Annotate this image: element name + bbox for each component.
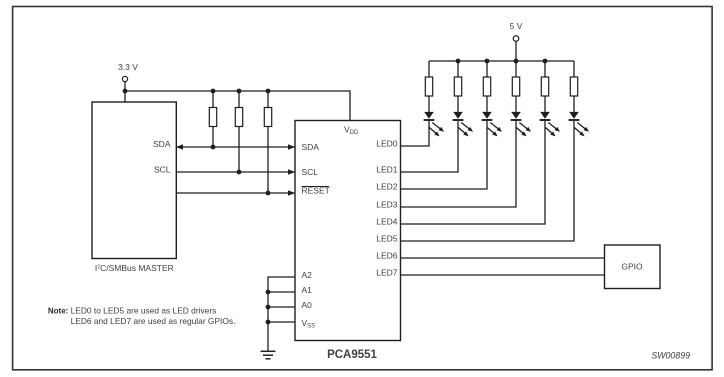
svg-text:LED6: LED6	[376, 251, 398, 261]
svg-text:5 V: 5 V	[510, 21, 523, 31]
svg-text:SCL: SCL	[154, 164, 171, 174]
node rail at R1	[211, 89, 216, 94]
supply 3.3 V	[118, 62, 138, 102]
LED4 diode	[540, 112, 560, 136]
LED1 diode	[453, 112, 473, 136]
wire LED2	[401, 121, 488, 189]
LED2 diode	[482, 112, 502, 136]
svg-text:LED2: LED2	[376, 182, 398, 192]
wire SDA	[176, 144, 295, 149]
svg-text:LED4: LED4	[376, 217, 398, 227]
svg-text:I2C/SMBus MASTER: I2C/SMBus MASTER	[95, 263, 174, 273]
wire A1	[268, 291, 295, 293]
wire SCL	[176, 169, 295, 174]
resistor pull-up SDA	[209, 91, 216, 147]
node rail at R2	[237, 89, 242, 94]
svg-text:SCL: SCL	[302, 167, 319, 177]
node rail chain2	[456, 59, 461, 64]
wire LED5	[401, 121, 575, 241]
svg-text:RESET: RESET	[302, 186, 330, 196]
resistor LED4 chain	[541, 61, 548, 112]
svg-text:A1: A1	[302, 285, 313, 295]
node A0	[266, 305, 271, 310]
note text	[48, 305, 236, 326]
svg-text:LED5: LED5	[376, 234, 398, 244]
node VSS	[266, 320, 271, 325]
wire VSS	[268, 321, 295, 323]
wire LED6 to GPIO	[401, 257, 605, 259]
resistor LED3 chain	[512, 61, 519, 112]
wire LED3	[401, 121, 517, 207]
node rail chain3	[485, 59, 490, 64]
wire 5V rail	[429, 60, 574, 62]
node rail at master	[123, 89, 128, 94]
svg-text:PCA9551: PCA9551	[327, 349, 377, 361]
resistor LED2 chain	[483, 61, 490, 112]
wire RESET	[176, 190, 295, 195]
IC PCA9551	[295, 121, 401, 361]
resistor pull-up SCL	[235, 91, 242, 172]
pin RESET	[302, 186, 330, 196]
block GPIO	[605, 245, 661, 289]
svg-text:LED3: LED3	[376, 200, 398, 210]
svg-text:3.3 V: 3.3 V	[118, 62, 138, 72]
wire LED4	[401, 121, 546, 224]
block I2C/SMBus MASTER	[92, 102, 176, 273]
LED0 diode	[424, 112, 444, 136]
node rail at R3	[266, 89, 271, 94]
svg-text:LED1: LED1	[376, 165, 398, 175]
resistor pull-up RESET	[264, 91, 271, 193]
svg-text:A2: A2	[302, 270, 313, 280]
node rail chain5	[543, 59, 548, 64]
wire LED1	[401, 121, 459, 172]
ground	[261, 351, 276, 359]
node A1	[266, 290, 271, 295]
svg-text:LED7: LED7	[376, 268, 398, 278]
svg-text:A0: A0	[302, 300, 313, 310]
svg-text:SW00899: SW00899	[651, 350, 690, 360]
svg-text:LED0: LED0	[376, 139, 398, 149]
wire 3.3V rail	[125, 91, 350, 121]
LED5 diode	[569, 112, 589, 136]
svg-text:SDA: SDA	[153, 139, 171, 149]
svg-text:LED6 and LED7 are used as regu: LED6 and LED7 are used as regular GPIOs.	[71, 316, 236, 326]
svg-text:Note:LED0 to LED5 are used as: Note:LED0 to LED5 are used as LED driver…	[48, 305, 216, 315]
resistor LED0 chain	[425, 61, 432, 112]
resistor LED5 chain	[570, 61, 577, 112]
wire address bus A2	[268, 277, 295, 351]
wire LED0	[401, 121, 430, 146]
svg-text:GPIO: GPIO	[621, 262, 643, 272]
supply 5 V	[510, 21, 523, 61]
node rail chain4	[514, 59, 519, 64]
LED3 diode	[511, 112, 531, 136]
svg-text:SDA: SDA	[302, 142, 320, 152]
resistor LED1 chain	[454, 61, 461, 112]
wire LED7 to GPIO	[401, 274, 605, 276]
wire A0	[268, 306, 295, 308]
